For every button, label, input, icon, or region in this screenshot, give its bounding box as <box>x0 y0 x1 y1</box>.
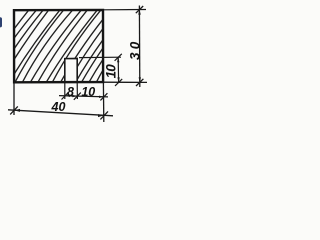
extension line notch-right <box>76 83 78 99</box>
dim text 30 vertical <box>128 41 143 60</box>
blue mark (clipped object at left edge) <box>0 17 2 27</box>
svg-text:40: 40 <box>51 100 66 114</box>
svg-text:0: 0 <box>104 64 119 72</box>
extension line notch-left <box>64 83 66 99</box>
dimension line 30 vertical <box>138 6 140 88</box>
dim text 10 vertical <box>104 64 119 79</box>
block outline <box>14 10 103 82</box>
extension line bottom (for 10/30) <box>104 81 147 83</box>
dimension line 10 vertical <box>117 57 119 82</box>
extension line top (for 30) <box>104 9 146 11</box>
dimension line 8-10 chain <box>59 96 108 97</box>
dimension line 40 <box>8 110 113 116</box>
notch outline <box>65 58 77 82</box>
svg-text:3: 3 <box>128 52 143 60</box>
arrow+tick top of 10 <box>115 54 122 63</box>
arrow+tick at x=65 <box>62 92 71 99</box>
extension line notch-top (for vertical 10) <box>79 56 121 58</box>
arrow+tick bottom of 30 <box>136 77 143 86</box>
arrow+tick top of 30 <box>136 6 143 15</box>
extension line right (for 40/10) <box>102 83 104 122</box>
arrow+tick at x=104 (8-10 line) <box>99 93 107 100</box>
svg-text:8: 8 <box>67 85 74 99</box>
hatching of section <box>0 9 156 84</box>
extension line left (for 40) <box>13 83 15 115</box>
arrow+tick bottom of 10 <box>115 77 122 86</box>
arrow+tick at x=77 <box>72 93 81 100</box>
arrow+tick at x=104 (40 line) <box>98 111 108 119</box>
arrow+tick at x=14 (40 line) <box>10 106 20 114</box>
svg-text:10: 10 <box>81 85 95 99</box>
svg-text:0: 0 <box>128 41 143 49</box>
